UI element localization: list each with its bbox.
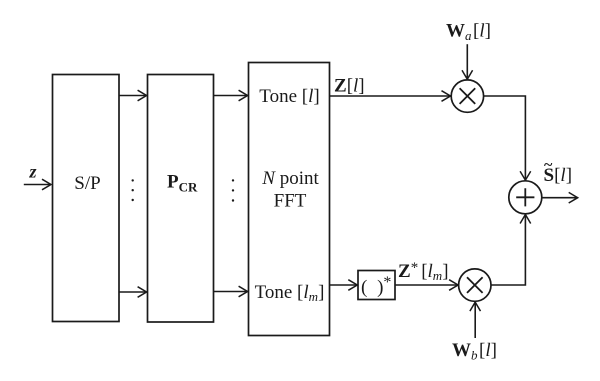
svg-text:~: ~ bbox=[544, 157, 553, 174]
wire adder output bbox=[542, 197, 578, 199]
wire conjugate box to X2 bbox=[395, 284, 458, 286]
wire S/P to PCR bottom bbox=[119, 291, 147, 293]
svg-text:Z[l]: Z[l] bbox=[334, 76, 365, 97]
wire X1 to adder bbox=[484, 96, 526, 180]
wire Wa into X1 bbox=[466, 44, 468, 79]
dots column 1 bbox=[132, 179, 134, 201]
block conjugate ( )* bbox=[358, 271, 395, 300]
svg-text:z: z bbox=[28, 162, 36, 182]
wire Wb into X2 bbox=[474, 302, 476, 338]
wire X2 to adder bbox=[491, 215, 525, 286]
dots column 2 bbox=[232, 179, 234, 202]
block PCR bbox=[148, 75, 214, 323]
svg-text:S/P: S/P bbox=[74, 173, 100, 194]
svg-text:Tone [l]: Tone [l] bbox=[259, 86, 319, 107]
svg-text:FFT: FFT bbox=[274, 191, 307, 212]
wire PCR to FFT top bbox=[214, 95, 248, 97]
multiplier X1 (top) bbox=[451, 80, 483, 112]
wire PCR to FFT bottom bbox=[214, 291, 248, 293]
block S/P bbox=[53, 75, 120, 322]
wire z input arrow bbox=[24, 184, 51, 186]
svg-text:N point: N point bbox=[261, 168, 319, 189]
wire FFT to conjugate box bbox=[330, 284, 357, 286]
wire S/P to PCR top bbox=[119, 95, 147, 97]
wire FFT to multiplier X1 bbox=[330, 95, 451, 97]
multiplier X2 (bottom) bbox=[459, 269, 491, 301]
block N point FFT bbox=[249, 63, 330, 336]
adder (plus circle) bbox=[509, 181, 542, 214]
